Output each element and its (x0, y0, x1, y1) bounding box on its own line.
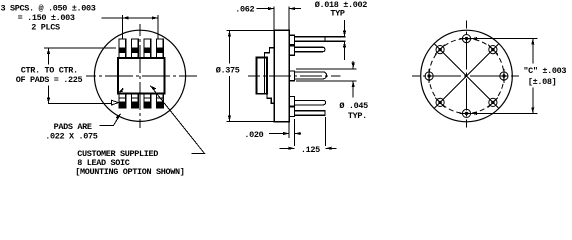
bottom lead 1 (119, 94, 126, 108)
pin row1 (long, dimensioned) (295, 37, 346, 42)
bottom lead 4 (157, 94, 164, 108)
glass boss row4 (289, 97, 294, 107)
top lead 3 (144, 39, 151, 58)
pin bottom (460, 109, 474, 117)
pin row4 (295, 100, 326, 105)
dimension dia .045 (boss dia) (296, 68, 357, 70)
leader: PADS ARE (100, 114, 121, 126)
SOIC body (side profile) (256, 57, 267, 93)
top lead 4 (157, 39, 164, 58)
svg-text:.125: .125 (301, 145, 320, 155)
pin right (500, 69, 508, 83)
dimension .020 (boss standoff) (288, 122, 290, 138)
dimension dia .375 (flange dia) (227, 29, 275, 31)
bottom gull-wing lead profile (267, 94, 274, 103)
top lead 2 (132, 39, 139, 58)
svg-text:Ø .045: Ø .045 (339, 101, 368, 111)
axis centerline (248, 75, 341, 77)
pin lower-left (435, 98, 445, 108)
open arrow pointing at pad (112, 100, 119, 105)
SOIC body (118, 58, 165, 94)
svg-text:[MOUNTING OPTION SHOWN]: [MOUNTING OPTION SHOWN] (75, 167, 184, 177)
glass boss row1 (289, 35, 294, 45)
dimension dia .018 (pin dia) (344, 20, 346, 37)
svg-text:[±.08]: [±.08] (528, 77, 557, 87)
svg-text:"C" ±.003: "C" ±.003 (523, 66, 566, 76)
dimension .125 (pin length) (324, 117, 326, 146)
svg-text:.062: .062 (235, 4, 254, 14)
svg-text:Ø.375: Ø.375 (216, 65, 240, 75)
svg-text:2 PLCS: 2 PLCS (31, 23, 60, 33)
svg-text:TYP.: TYP. (348, 111, 367, 121)
svg-text:.022 X .075: .022 X .075 (45, 132, 98, 142)
vertical centerline (466, 21, 468, 128)
horizontal centerline (412, 75, 519, 77)
svg-text:TYP: TYP (330, 9, 345, 19)
top lead 1 (119, 39, 126, 58)
svg-text:PADS ARE: PADS ARE (54, 122, 92, 132)
diagonal spoke 45 (434, 44, 498, 108)
header outline circle (top view) (94, 30, 185, 121)
pin upper-left (435, 45, 445, 55)
svg-text:.020: .020 (244, 130, 263, 140)
SOIC body inner edge line (264, 57, 266, 93)
svg-text:CTR. TO CTR.: CTR. TO CTR. (21, 66, 78, 76)
leader: CUSTOMER SUPPLIED (arrow into SOIC body) (150, 86, 204, 154)
pin middle (on axis) (295, 72, 327, 79)
svg-text:3 SPCS. @ .050 ±.003: 3 SPCS. @ .050 ±.003 (1, 4, 96, 14)
glass boss row5 (289, 107, 294, 117)
glass boss row2 (289, 46, 294, 56)
bottom lead 3 (144, 94, 151, 108)
pin row2 (295, 47, 325, 52)
dimension: 3 SPCS @ .050 (top of left view) (102, 17, 159, 19)
vertical centerline (139, 24, 141, 128)
pin lower-right (488, 98, 498, 108)
glass boss middle (289, 71, 294, 81)
pin top (460, 35, 474, 43)
pin row5 (295, 111, 326, 116)
svg-text:OF PADS = .225: OF PADS = .225 (16, 75, 83, 85)
pin-1 index chamfer inside SOIC body (120, 89, 124, 93)
bottom lead 2 (132, 94, 139, 108)
diagonal spoke 135 (434, 44, 498, 108)
pin upper-right (488, 45, 498, 55)
top gull-wing lead profile (265, 48, 275, 58)
dimension "C" pin circle (471, 38, 538, 40)
pin left (425, 69, 433, 83)
header outline circle (bottom view) (421, 30, 513, 122)
flange (side view) (274, 30, 289, 121)
dimension .062 (flange thickness) (273, 7, 275, 31)
dimension: CTR to CTR of pads .225 (left of left view) (44, 47, 116, 49)
bolt circle (dashed) (429, 39, 504, 114)
horizontal centerline (86, 75, 197, 77)
